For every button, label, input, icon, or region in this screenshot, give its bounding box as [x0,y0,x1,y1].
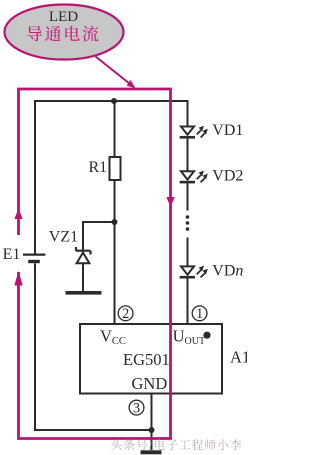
Uout node dot [203,332,210,339]
ellipsis dots in LED chain [186,215,190,231]
wire: battery negative down to bottom rail [35,263,152,430]
pin 3 circle [129,400,144,416]
resistor R1 [110,157,121,180]
watermark [111,439,241,451]
current arrow up (left, lower) [14,271,22,286]
wire: VD1 to VD2 [187,139,189,172]
svg-text:GND: GND [132,374,168,393]
ground symbol [141,450,162,454]
callout arrow [96,57,136,89]
wire: R1 bottom to Vcc pin [114,180,116,325]
wire: VDn to Uout pin [187,279,189,326]
svg-text:UOUT: UOUT [173,326,205,347]
callout bubble: LED conduction current [5,5,124,60]
node dot: R1 bottom / zener junction [112,219,118,225]
wire: zener anode down [82,263,84,291]
svg-text:1: 1 [196,306,203,322]
svg-text:VDn: VDn [212,263,243,280]
svg-text:VZ1: VZ1 [49,228,78,245]
wire: above VDn [187,238,189,267]
wire: below VD2 [187,183,189,210]
wire: GND pin down through loop [151,394,153,450]
current loop highlight (magenta) [19,89,171,439]
op-amp/IC A1 EG501 box [80,324,222,394]
node dot: top rail / R1 junction [111,98,117,104]
svg-text:LED: LED [49,9,78,25]
pin 2 circle [118,306,133,322]
svg-text:3: 3 [133,400,140,416]
LED VD2 [180,171,208,184]
wire: zener branch horizontal + down [83,222,115,250]
node dot: GND / bottom rail junction [149,427,155,433]
LED VDn [180,266,208,279]
wire: R1 top feed [114,101,116,158]
wire: top rail and left branch down to battery [35,101,188,254]
svg-text:VCC: VCC [100,326,126,347]
svg-text:EG501: EG501 [123,350,170,369]
svg-text:VD1: VD1 [212,122,243,139]
svg-text:E1: E1 [3,246,21,263]
LED VD1 [180,126,208,139]
svg-text:A1: A1 [230,348,247,367]
current arrow up (left, upper) [14,209,22,220]
zener diode VZ1 [76,247,91,263]
pin 1 circle [192,306,207,322]
current arrow down (right) [166,197,174,207]
battery E1 [23,255,45,264]
svg-text:VD2: VD2 [212,167,243,184]
svg-text:2: 2 [122,306,129,322]
ground bar: zener anode terminal [66,291,102,295]
svg-text:R1: R1 [89,159,108,176]
